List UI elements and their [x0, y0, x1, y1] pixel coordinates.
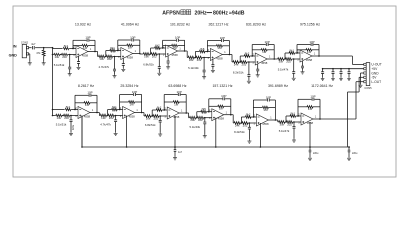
svg-text:20k: 20k — [190, 118, 195, 122]
ground — [293, 139, 295, 140]
svg-text:101.8232 Hz: 101.8232 Hz — [170, 23, 190, 27]
svg-text:202: 202 — [287, 122, 292, 126]
capacitor C1 4u7 — [31, 46, 33, 49]
svg-text:5.1k/43k: 5.1k/43k — [190, 125, 201, 129]
svg-text:16k: 16k — [146, 116, 151, 120]
resistor R9c to inverting input — [152, 109, 156, 111]
node M junction with riser wire — [105, 56, 106, 58]
drop wire to bottom rail stage 1 — [81, 116, 83, 148]
node output junction — [96, 112, 98, 114]
node output junction — [273, 58, 275, 60]
wire output vertical — [230, 99, 232, 115]
capacitor C5b to ground — [257, 64, 259, 69]
feedback resistor R1f with branch wire — [73, 45, 82, 47]
feedback capacitor C5a 10P with loop wire — [252, 44, 266, 46]
bottom supply rail — [82, 146, 350, 148]
node inverting input junction — [251, 55, 253, 57]
svg-text:1M: 1M — [262, 50, 267, 54]
svg-text:5k1: 5k1 — [66, 105, 71, 109]
capacitor C11b to ground — [249, 122, 251, 124]
svg-text:6k2: 6k2 — [157, 105, 162, 109]
svg-text:202: 202 — [107, 57, 112, 61]
svg-text:20Hz: 20Hz — [195, 10, 208, 16]
op-amp U2 4558 with pin numbers 1 2 3 — [121, 48, 133, 60]
svg-text:25.3254 Hz: 25.3254 Hz — [120, 84, 138, 88]
node M junction with riser wire — [285, 121, 286, 123]
capacitor C4c to ground — [203, 57, 205, 59]
capacitor C6c to ground — [293, 58, 295, 60]
feedback capacitor C8a 10P with loop wire — [120, 94, 134, 96]
wire from previous stage output — [275, 119, 277, 121]
decoupling cap at x333 — [332, 69, 334, 72]
feedback capacitor C7a 10P with loop wire — [75, 94, 89, 96]
op-amp U9 4558 with pin numbers 1 2 3 — [167, 107, 179, 119]
resistor R5b series input — [241, 61, 247, 64]
decoupling cap at x341 — [340, 69, 342, 72]
wire from previous stage output — [231, 114, 233, 116]
resistor R8b series input — [108, 114, 114, 117]
svg-text:202: 202 — [198, 118, 203, 122]
ground — [122, 68, 124, 69]
svg-text:4u7: 4u7 — [178, 151, 183, 154]
wire inverting-node vertical — [206, 41, 208, 52]
wire inverting-node vertical — [119, 95, 121, 110]
node inverting input junction — [208, 111, 210, 113]
wire from previous stage output — [95, 51, 98, 53]
ground — [204, 135, 206, 136]
svg-text:4.7k/47k: 4.7k/47k — [99, 65, 110, 69]
feedback capacitor C10a 10P with loop wire — [209, 98, 223, 100]
resistor R2a series input — [99, 55, 105, 58]
rail cap at x175 — [174, 147, 176, 150]
ground — [203, 76, 205, 77]
wire inverting-node vertical — [208, 99, 210, 112]
svg-text:41.0064 Hz: 41.0064 Hz — [121, 23, 139, 27]
node M junction with riser wire — [107, 115, 108, 117]
resistor R4c to inverting input — [195, 51, 199, 53]
op-amp U8 4558 with pin numbers 1 2 3 — [123, 107, 135, 119]
svg-text:4u7: 4u7 — [31, 42, 36, 46]
svg-text:4558: 4558 — [261, 61, 268, 65]
svg-text:CON5: CON5 — [364, 86, 372, 90]
svg-text:9k1: 9k1 — [291, 111, 296, 115]
resistor R11c to inverting input — [241, 116, 245, 118]
wire from previous stage output — [97, 112, 99, 114]
wire output vertical — [141, 95, 143, 113]
node output junction — [275, 119, 277, 121]
wire output vertical — [185, 95, 187, 114]
splitter node — [52, 47, 54, 49]
svg-text:4558: 4558 — [84, 114, 91, 118]
ground — [302, 71, 304, 72]
svg-text:5k1: 5k1 — [112, 105, 117, 109]
feedback resistor R9f with branch wire — [164, 101, 173, 103]
op-amp U12 4558 with pin numbers 1 2 3 — [301, 113, 313, 125]
feedback resistor R3f with branch wire — [163, 45, 172, 47]
resistor R4a series input — [188, 56, 194, 59]
svg-text:20k: 20k — [189, 58, 194, 62]
vertical bus wire to bottom row — [52, 48, 54, 116]
svg-text:13.932 Hz: 13.932 Hz — [75, 23, 91, 27]
capacitor C3c to ground — [159, 53, 161, 55]
svg-text:1M: 1M — [219, 107, 224, 111]
svg-text:4558: 4558 — [128, 114, 135, 118]
feedback resistor R5f with branch wire — [252, 49, 261, 51]
svg-text:202: 202 — [64, 116, 69, 120]
wire output vertical — [318, 45, 320, 57]
ground under R1 — [43, 62, 45, 63]
node output junction — [94, 51, 96, 53]
capacitor C6b to ground — [302, 61, 304, 66]
ground — [293, 77, 295, 78]
svg-text:10P: 10P — [177, 90, 182, 94]
wire output vertical — [273, 45, 275, 60]
drop wire to bottom rail stage 4 — [215, 118, 217, 147]
svg-text:1M: 1M — [128, 46, 133, 50]
svg-text:1M: 1M — [263, 108, 268, 112]
node inverting input junction — [296, 52, 298, 54]
resistor R11a series input — [234, 122, 240, 125]
resistor R3c to inverting input — [151, 47, 155, 49]
svg-text:5.1k/51k: 5.1k/51k — [54, 63, 65, 67]
svg-text:202: 202 — [241, 62, 246, 66]
rail cap at x310 — [309, 147, 311, 150]
feedback resistor R2f with branch wire — [118, 44, 127, 46]
svg-text:5k1: 5k1 — [110, 46, 115, 50]
resistor R2b series input — [106, 55, 112, 58]
resistor R3a series input — [143, 53, 149, 56]
feedback resistor R10f with branch wire — [209, 105, 218, 107]
output connector CON5 — [366, 63, 370, 86]
svg-text:24k: 24k — [235, 123, 240, 127]
wire inverting-node vertical — [296, 45, 298, 54]
resistor R6b series input — [286, 58, 292, 61]
capacitor C10b to ground — [204, 117, 206, 119]
node inverting input junction — [297, 115, 299, 117]
resistor R6c to inverting input — [285, 52, 289, 54]
svg-text:202: 202 — [286, 59, 291, 63]
svg-text:10P: 10P — [85, 36, 90, 40]
wire inverting-node vertical — [72, 40, 74, 48]
node output junction — [141, 112, 143, 114]
svg-text:10P: 10P — [266, 95, 271, 99]
feedback capacitor C9a 10P with loop wire — [164, 94, 178, 96]
op-amp U1 4558 with pin numbers 1 2 3 — [76, 46, 88, 58]
resistor R12a series input — [279, 121, 285, 124]
feedback capacitor C1a 10P with loop wire — [73, 39, 87, 41]
wire output vertical — [319, 99, 321, 119]
drop wire to bottom rail stage 5 — [259, 123, 261, 147]
resistor R12c to inverting input — [286, 115, 290, 117]
node inverting input junction — [207, 51, 209, 53]
bottom stage 1 input network — [52, 109, 54, 111]
node output junction — [230, 114, 232, 116]
wire output vertical — [139, 40, 141, 54]
svg-text:4558: 4558 — [82, 53, 89, 57]
node output junction — [184, 50, 186, 52]
resistor R2c to inverting input — [106, 50, 110, 52]
wire inverting-node vertical — [252, 100, 254, 117]
resistor R5c to inverting input — [240, 55, 244, 57]
feedback resistor R8f with branch wire — [120, 101, 129, 103]
svg-text:4558: 4558 — [171, 53, 178, 57]
svg-text:10P: 10P — [309, 40, 314, 44]
capacitor C12b to ground — [293, 121, 295, 123]
node output junction — [185, 112, 187, 114]
decoupling rail +5V — [323, 68, 364, 70]
op-amp U4 4558 with pin numbers 1 2 3 — [210, 49, 222, 61]
svg-text:4558: 4558 — [306, 58, 313, 62]
ground — [212, 69, 214, 70]
drop wire to bottom rail stage 6 — [309, 122, 311, 147]
svg-text:10P: 10P — [220, 36, 225, 40]
decoupling cap at x322.6 — [322, 69, 324, 72]
svg-text:800Hz: 800Hz — [213, 10, 228, 16]
resistor R6a series input — [278, 58, 284, 61]
capacitor C9b to ground — [159, 115, 161, 117]
svg-text:8k2: 8k2 — [245, 51, 250, 55]
svg-text:8.2k/51k: 8.2k/51k — [233, 71, 244, 75]
wire output vertical — [184, 40, 186, 51]
resistor R8a series input — [100, 114, 106, 117]
node M junction with riser wire — [284, 58, 285, 60]
wire from previous stage output — [274, 58, 278, 60]
svg-text:202: 202 — [197, 58, 202, 62]
resistor R10c to inverting input — [197, 111, 201, 113]
resistor R9a series input — [145, 115, 151, 118]
wire output vertical — [94, 40, 96, 51]
svg-text:6.8k/51k: 6.8k/51k — [143, 63, 154, 67]
feedback capacitor C11a 10P with loop wire — [253, 99, 267, 101]
ground — [248, 140, 250, 141]
svg-text:10k: 10k — [57, 116, 62, 120]
capacitor C2b to ground — [122, 59, 124, 64]
svg-text:1M: 1M — [85, 103, 90, 107]
node + resistor R1 to ground — [43, 47, 45, 49]
op-amp U3 4558 with pin numbers 1 2 3 — [166, 45, 178, 57]
node output junction — [318, 55, 320, 57]
resistor R9b series input — [153, 115, 159, 118]
svg-text:9k1: 9k1 — [290, 48, 295, 52]
svg-text:4558: 4558 — [218, 117, 225, 121]
svg-text:4558: 4558 — [127, 55, 134, 59]
node output junction — [229, 54, 231, 56]
resistor R12b series input — [287, 121, 293, 124]
resistor R5a series input — [233, 61, 239, 64]
svg-text:10P: 10P — [221, 94, 226, 98]
node M junction with riser wire — [240, 122, 241, 124]
wire from previous stage output — [229, 54, 232, 56]
ground — [257, 74, 259, 75]
svg-text:4.7k/47k: 4.7k/47k — [100, 123, 111, 127]
node inverting input junction — [162, 47, 164, 49]
wire output vertical — [96, 95, 98, 112]
op-amp U11 4558 with pin numbers 1 2 3 — [256, 114, 268, 126]
resistor R10b series input — [197, 116, 203, 119]
svg-text:220u: 220u — [352, 152, 358, 155]
node M junction with riser wire — [151, 115, 152, 117]
svg-text:5.1k/43k: 5.1k/43k — [188, 66, 199, 70]
feedback capacitor C2a 10P with loop wire — [118, 39, 132, 41]
svg-text:30k: 30k — [280, 122, 285, 126]
resistor R11b series input — [242, 122, 248, 125]
resistor R10a series input — [190, 116, 196, 119]
svg-text:1M: 1M — [308, 107, 313, 111]
svg-text:CON2: CON2 — [21, 41, 29, 45]
wire from previous stage output — [140, 53, 144, 55]
svg-text:4558: 4558 — [173, 115, 180, 119]
feedback resistor R12f with branch wire — [298, 106, 307, 108]
feedback capacitor C12a 10P with loop wire — [298, 98, 312, 100]
ground — [167, 66, 169, 67]
svg-text:262.1217 Hz: 262.1217 Hz — [208, 23, 228, 27]
ground — [248, 80, 250, 81]
svg-text:220u: 220u — [72, 124, 75, 130]
svg-text:4558: 4558 — [262, 122, 269, 126]
svg-text:7k5: 7k5 — [201, 107, 206, 111]
drop wire to bottom rail stage 3 — [174, 116, 176, 147]
svg-text:6.8k/51k: 6.8k/51k — [145, 123, 156, 127]
wire pin2 down — [29, 53, 30, 55]
node inverting input junction — [163, 109, 165, 111]
wire pin1 to C1 — [29, 47, 32, 49]
svg-text:5.1k/47k: 5.1k/47k — [279, 129, 290, 133]
svg-text:202: 202 — [62, 55, 67, 59]
wire output vertical — [228, 41, 230, 55]
wire from previous stage output — [186, 112, 188, 114]
svg-text:IN: IN — [13, 45, 17, 49]
node M junction with riser wire — [239, 61, 240, 63]
feedback resistor R7f with branch wire — [75, 102, 84, 104]
node inverting input junction — [74, 109, 76, 111]
node inverting input junction — [72, 48, 74, 50]
node inverting input junction — [119, 109, 121, 111]
svg-text:1M: 1M — [130, 102, 135, 106]
svg-text:10k: 10k — [99, 57, 104, 61]
wire inverting-node vertical — [74, 95, 76, 109]
svg-text:12k: 12k — [101, 116, 106, 120]
wire inverting-node vertical — [162, 40, 164, 48]
top stage 1 input network — [53, 48, 63, 50]
svg-text:202: 202 — [109, 116, 114, 120]
svg-text:10P: 10P — [265, 40, 270, 44]
svg-text:L-OUT: L-OUT — [371, 80, 381, 84]
wire inverting-node vertical — [297, 99, 299, 116]
svg-text:AFPSN: AFPSN — [162, 10, 180, 16]
capacitor C4b to ground — [212, 60, 214, 65]
svg-text:8.2617 Hz: 8.2617 Hz — [78, 84, 94, 88]
resistor R3b series input — [151, 53, 157, 56]
wire pin3 GND — [361, 72, 364, 74]
feedback resistor R11f with branch wire — [253, 107, 262, 109]
svg-text:10P: 10P — [130, 35, 135, 39]
svg-text:391.6989 Hz: 391.6989 Hz — [268, 84, 288, 88]
svg-text:24k: 24k — [234, 62, 239, 66]
node inverting input junction — [253, 116, 255, 118]
feedback capacitor C6a 10P with loop wire — [297, 44, 311, 46]
svg-text:6k2: 6k2 — [155, 43, 160, 47]
wire inverting-node vertical — [251, 45, 253, 57]
svg-text:GND: GND — [9, 53, 18, 57]
op-amp U6 4558 with pin numbers 1 2 3 — [300, 50, 312, 62]
svg-text:10P: 10P — [87, 91, 92, 95]
ground — [115, 132, 117, 133]
capacitor C5c to ground — [248, 61, 250, 63]
svg-text:63.6988 Hz: 63.6988 Hz — [168, 84, 186, 88]
svg-text:30k: 30k — [279, 59, 284, 63]
node M junction with riser wire — [194, 57, 195, 59]
svg-text:1M: 1M — [174, 102, 179, 106]
svg-text:47k: 47k — [36, 51, 41, 55]
svg-text:220u: 220u — [313, 152, 319, 155]
capacitor C3b to ground — [167, 56, 169, 61]
node output junction — [139, 53, 141, 55]
wire from previous stage output — [142, 112, 144, 114]
svg-text:5k1: 5k1 — [64, 44, 69, 48]
svg-text:202: 202 — [153, 116, 158, 120]
svg-text:8.2k/51k: 8.2k/51k — [234, 130, 245, 134]
wire output vertical — [274, 100, 276, 120]
sheet border frame — [13, 6, 396, 177]
op-amp U7 4558 with pin numbers 1 2 3 — [78, 107, 90, 119]
capacitor C8b to ground — [115, 115, 117, 117]
svg-text:1M: 1M — [217, 46, 222, 50]
svg-text:10k: 10k — [55, 55, 60, 59]
svg-text:8k2: 8k2 — [246, 112, 251, 116]
feedback resistor R6f with branch wire — [297, 49, 306, 51]
resistor R4b series input — [196, 56, 202, 59]
svg-text:157.1321 Hz: 157.1321 Hz — [212, 84, 232, 88]
svg-text:975.1256 Hz: 975.1256 Hz — [300, 23, 320, 27]
feedback capacitor C4a 10P with loop wire — [207, 40, 221, 42]
ground — [159, 133, 161, 134]
drop wire to bottom rail stage 2 — [126, 116, 128, 148]
svg-text:10P: 10P — [132, 90, 137, 94]
capacitor C2c to ground — [114, 56, 116, 58]
svg-text:≈94dB: ≈94dB — [229, 10, 245, 16]
svg-text:10P: 10P — [175, 36, 180, 40]
rail cap at x349 — [348, 147, 350, 150]
ground — [114, 75, 116, 76]
feedback resistor R4f with branch wire — [207, 45, 216, 47]
ground under connector pin2 — [29, 62, 31, 63]
feedback capacitor C3a 10P with loop wire — [163, 39, 177, 41]
node output junction — [319, 118, 321, 120]
svg-text:4558: 4558 — [216, 56, 223, 60]
wire from previous stage output — [185, 50, 188, 52]
top chain output wire to connector — [319, 55, 352, 57]
decoupling cap at x349 — [348, 69, 350, 72]
svg-text:16k: 16k — [144, 54, 149, 58]
riser -5V from rail to pin4 — [359, 76, 364, 78]
svg-text:202: 202 — [243, 123, 248, 127]
ground — [158, 72, 160, 73]
svg-text:631.8293 Hz: 631.8293 Hz — [246, 23, 266, 27]
svg-text:10P: 10P — [310, 95, 315, 99]
bottom chain output route to connector pin5 — [320, 118, 356, 120]
wire C1 to node — [35, 47, 44, 49]
resistor R8c to inverting input — [108, 109, 112, 111]
wire node to splitter junction — [44, 47, 53, 49]
wire inverting-node vertical — [163, 95, 165, 111]
op-amp U10 4558 with pin numbers 1 2 3 — [212, 109, 224, 121]
svg-text:7k5: 7k5 — [200, 47, 205, 51]
svg-text:1172.0641 Hz: 1172.0641 Hz — [311, 84, 333, 88]
svg-text:202: 202 — [152, 54, 157, 58]
svg-text:5.1k/51k: 5.1k/51k — [56, 122, 67, 126]
node M junction with riser wire — [196, 117, 197, 119]
wire inverting-node vertical — [117, 40, 119, 51]
